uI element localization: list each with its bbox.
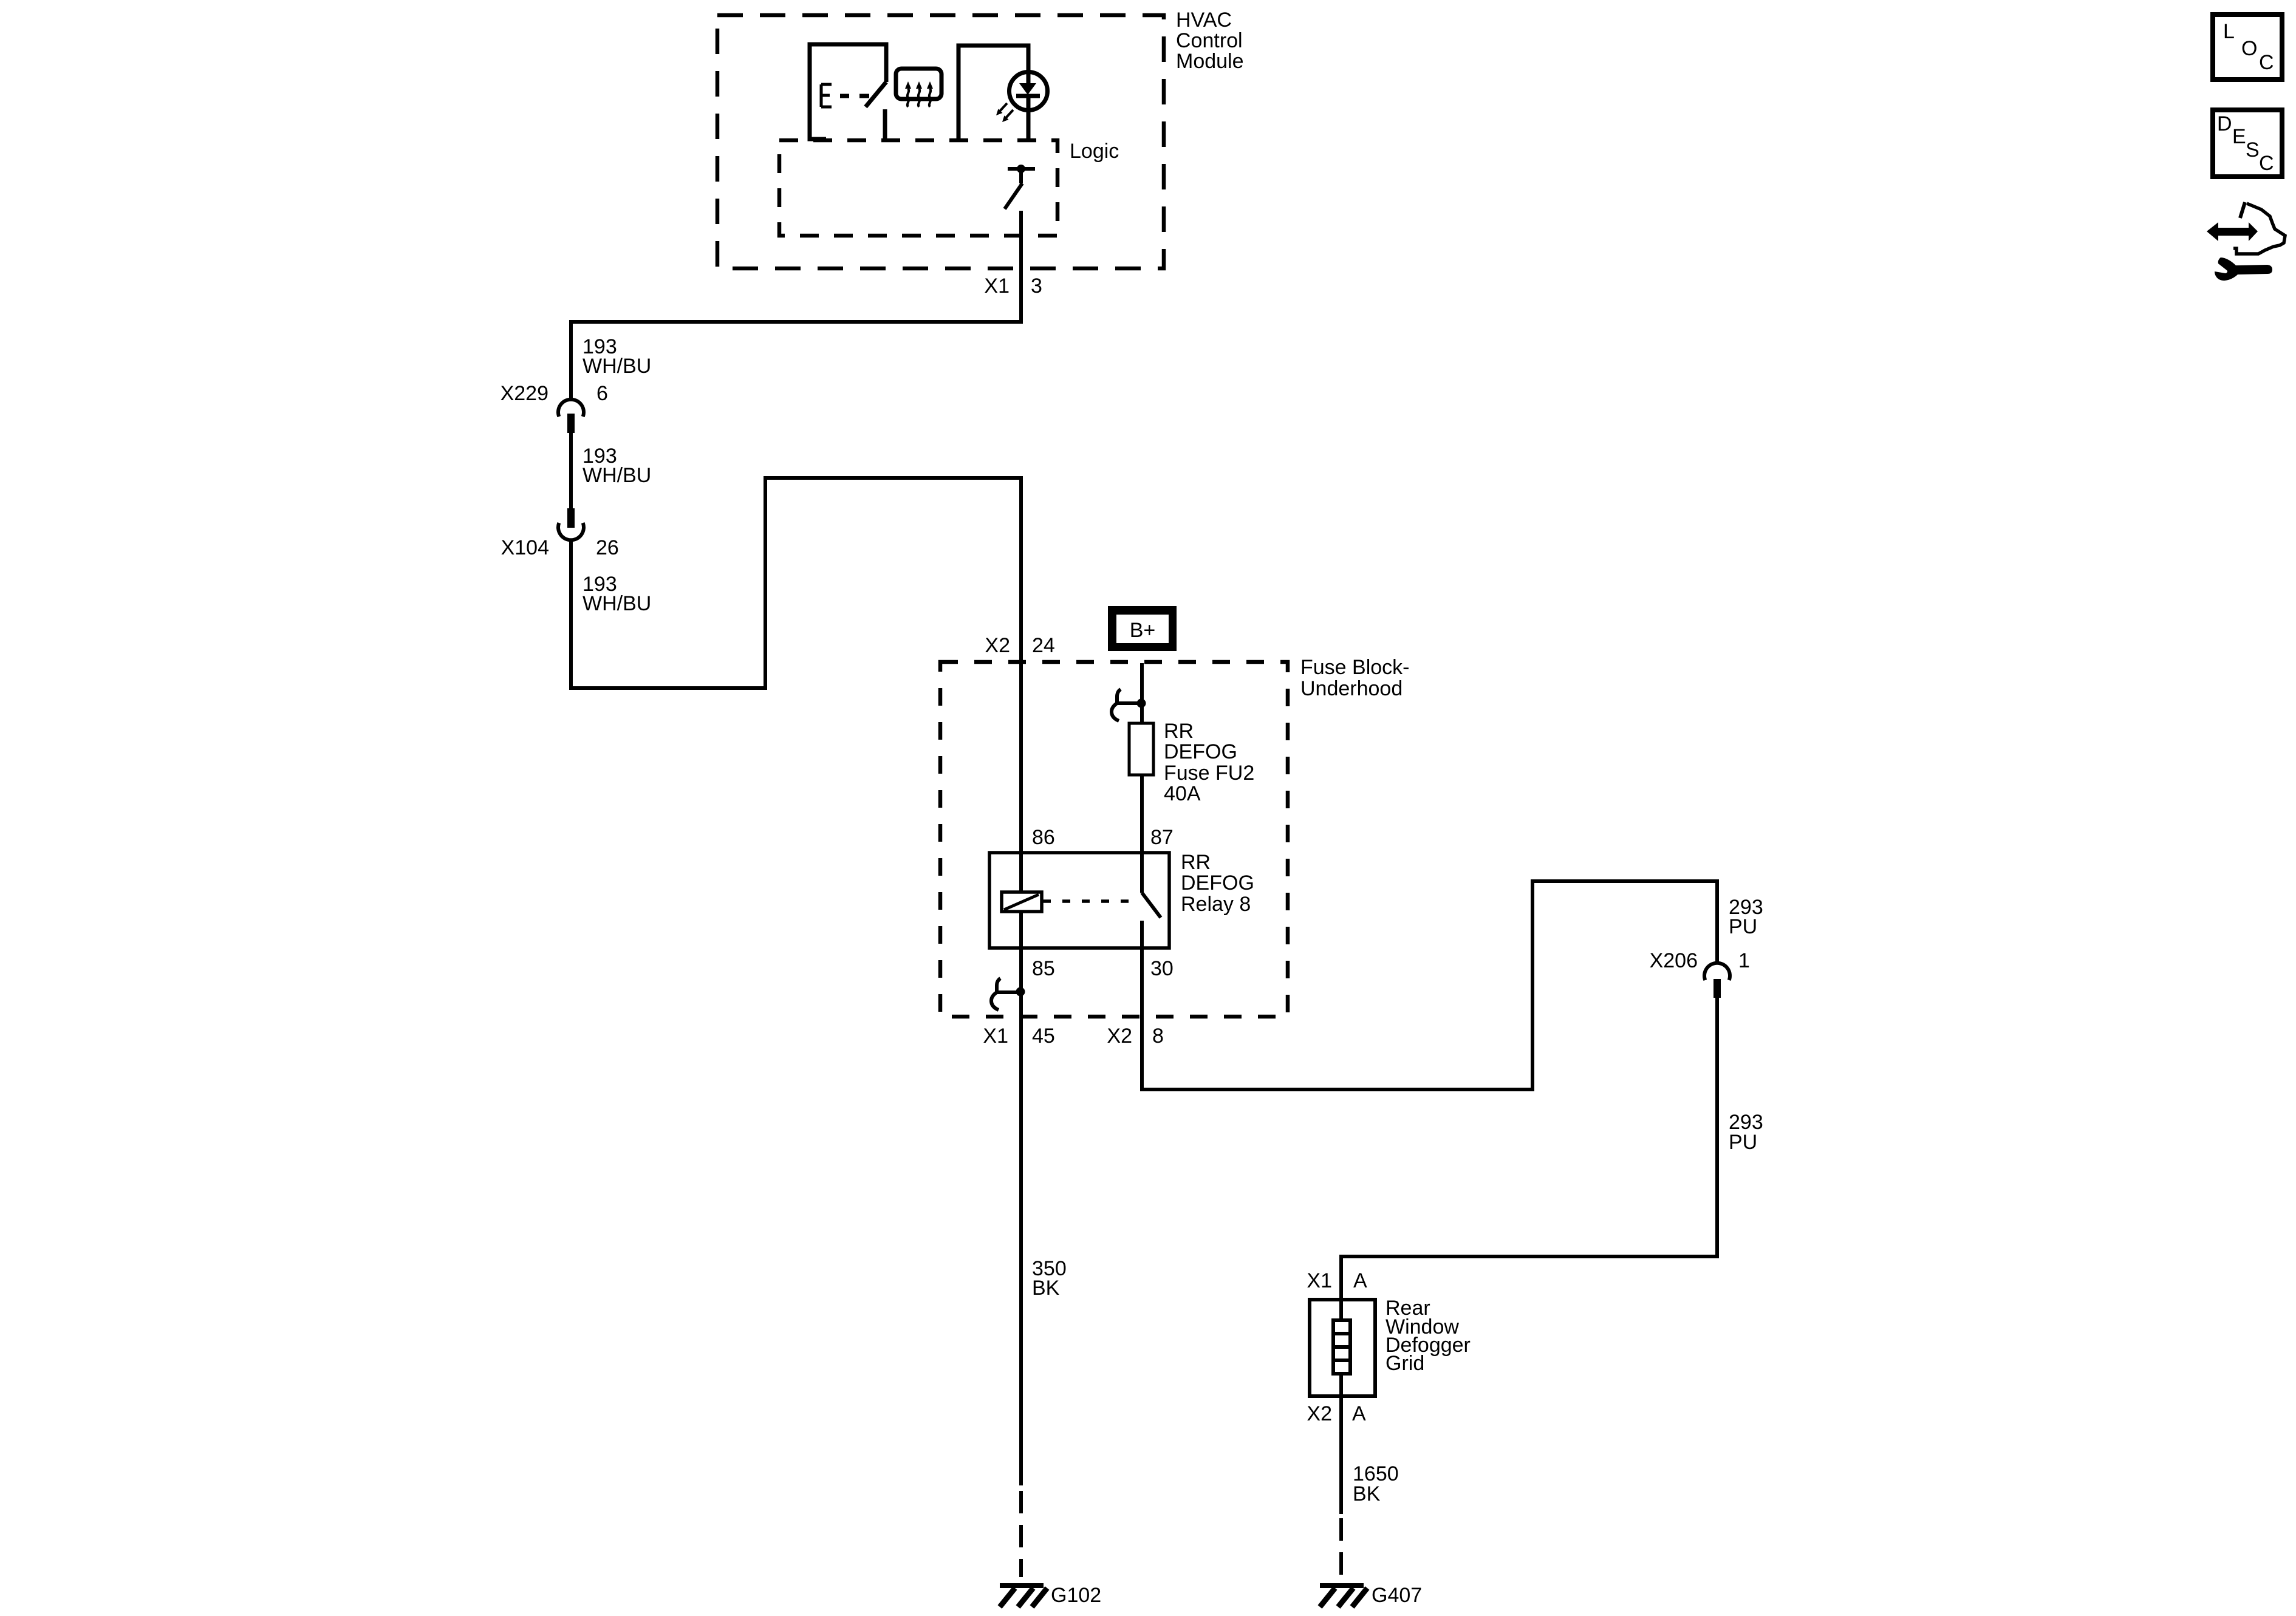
svg-text:Module: Module [1176,50,1244,73]
svg-text:A: A [1352,1402,1366,1425]
svg-text:1: 1 [1738,949,1750,972]
svg-text:DEFOG: DEFOG [1181,871,1254,895]
svg-text:RR: RR [1181,851,1211,874]
svg-text:BK: BK [1032,1277,1060,1300]
svg-text:Fuse Block-: Fuse Block- [1300,656,1410,679]
svg-text:30: 30 [1150,957,1174,980]
svg-text:PU: PU [1729,915,1757,938]
svg-text:Logic: Logic [1070,140,1119,163]
svg-text:24: 24 [1032,634,1055,657]
svg-text:3: 3 [1031,274,1042,298]
svg-text:RR: RR [1164,720,1194,743]
svg-text:HVAC: HVAC [1176,9,1232,32]
svg-text:O: O [2241,37,2257,60]
svg-text:E: E [2232,125,2246,148]
svg-text:D: D [2217,112,2232,135]
svg-text:A: A [1353,1269,1367,1292]
svg-text:Relay 8: Relay 8 [1181,893,1251,916]
svg-text:X2: X2 [985,634,1010,657]
svg-text:S: S [2246,138,2260,162]
svg-text:Fuse FU2: Fuse FU2 [1164,762,1254,785]
svg-text:PU: PU [1729,1131,1757,1154]
svg-text:X1: X1 [983,1024,1008,1048]
svg-text:X2: X2 [1307,1402,1332,1425]
svg-text:B+: B+ [1130,619,1156,642]
svg-text:Underhood: Underhood [1300,677,1403,700]
svg-text:DEFOG: DEFOG [1164,740,1237,763]
svg-text:C: C [2259,152,2274,175]
svg-text:X1: X1 [984,274,1010,298]
svg-text:6: 6 [596,382,608,405]
svg-text:WH/BU: WH/BU [583,355,651,378]
svg-text:45: 45 [1032,1024,1055,1048]
svg-text:Grid: Grid [1385,1352,1424,1375]
svg-text:26: 26 [596,536,619,559]
svg-text:X1: X1 [1307,1269,1332,1292]
svg-text:C: C [2259,51,2274,74]
svg-text:86: 86 [1032,826,1055,849]
svg-text:X206: X206 [1650,949,1698,972]
svg-text:X229: X229 [501,382,548,405]
svg-text:X2: X2 [1107,1024,1132,1048]
svg-text:40A: 40A [1164,782,1201,805]
svg-text:WH/BU: WH/BU [583,592,651,615]
svg-text:87: 87 [1150,826,1174,849]
svg-text:85: 85 [1032,957,1055,980]
svg-text:WH/BU: WH/BU [583,464,651,487]
svg-text:BK: BK [1353,1482,1381,1505]
svg-text:L: L [2223,20,2235,43]
svg-text:X104: X104 [501,536,549,559]
svg-text:Control: Control [1176,29,1243,52]
svg-text:8: 8 [1152,1024,1164,1048]
svg-text:G407: G407 [1372,1584,1422,1607]
svg-text:G102: G102 [1051,1584,1101,1607]
